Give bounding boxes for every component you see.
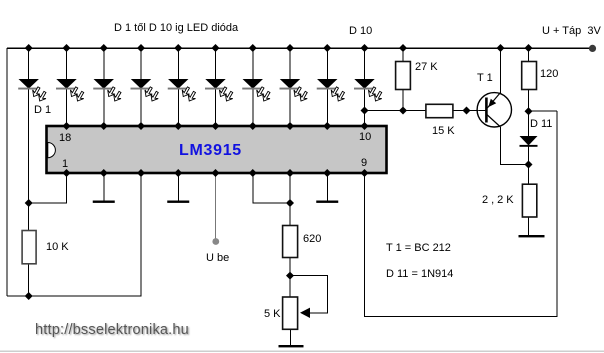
label 2,2K — [482, 194, 517, 206]
wire pin8 ground stub — [326, 174, 328, 201]
wire LED column D4 — [140, 48, 142, 125]
wire 620 to pot node — [289, 258, 291, 298]
label D11 — [530, 118, 552, 130]
LED D1 — [18, 79, 46, 101]
wire 27K top — [402, 48, 404, 62]
wire D10 tap to 27K node — [365, 110, 426, 112]
wire LED column D10 — [364, 48, 366, 125]
junction dots on top rail — [25, 44, 33, 52]
resistor R 15K — [426, 104, 453, 117]
wire 120 bottom to D11 — [528, 90, 530, 137]
wire LED column D3 — [103, 48, 105, 125]
bottom divider line — [0, 351, 604, 352]
wire pin6 jog to pin7 — [253, 174, 290, 203]
wire LED column D8 — [289, 48, 291, 125]
wire 10K bottom — [28, 264, 30, 296]
IC top pin dots — [63, 122, 71, 130]
ground pin4 — [167, 201, 189, 203]
junction dot 120/D11 — [525, 107, 533, 115]
resistor R 27K — [396, 62, 411, 90]
wire pin9 down and right bottom rail — [365, 111, 558, 317]
junction dot collector/2.2K — [525, 161, 533, 169]
label D10 — [349, 25, 372, 37]
label U be — [206, 252, 229, 264]
wire LED column D2 / pin 18 — [66, 48, 68, 125]
emitter with arrow — [487, 93, 500, 109]
resistor R 120 — [522, 62, 537, 90]
label D1 tol D10 — [114, 22, 238, 34]
IC U1 LM3915 body — [47, 126, 387, 173]
ground pin2 — [93, 201, 115, 203]
collector — [487, 115, 501, 128]
terminal U+Tap — [589, 45, 596, 52]
resistor R 10K — [22, 231, 36, 264]
ground 5K pot — [279, 345, 304, 347]
LED D2 — [56, 79, 84, 101]
wire LED column D6 — [215, 48, 217, 125]
LED D8 — [280, 79, 308, 101]
wire 120 top — [528, 48, 530, 62]
wire 2.2K bottom to ground — [528, 217, 530, 235]
label 620 — [303, 233, 321, 245]
wire left rail — [6, 48, 8, 296]
junction dot pin6/pin7 — [286, 199, 294, 207]
LED D10 — [354, 79, 382, 101]
label 120 — [540, 68, 558, 80]
wire emitter to rail — [500, 48, 502, 93]
label U + Tap 3V — [542, 25, 601, 37]
junction dot base — [463, 107, 471, 115]
pin label 1 — [62, 158, 68, 170]
potentiometer 5K body — [283, 297, 298, 329]
wire pot wiper loop — [290, 276, 328, 313]
wire pin1 to 10K node — [29, 174, 67, 203]
ground 2.2K — [519, 235, 545, 237]
wire LED column D1 — [28, 48, 30, 231]
terminal U be — [212, 238, 219, 245]
label D11 = 1N914 — [386, 268, 453, 280]
label URL — [35, 322, 189, 338]
wire D11 cathode to collector node — [528, 146, 530, 185]
junction dot 27K bottom — [399, 107, 407, 115]
IC bottom pin dots — [63, 169, 71, 177]
wire pin4 ground stub — [177, 174, 179, 201]
wire bottom-left to pin3 — [7, 174, 141, 296]
wire D11 node jog right — [529, 110, 558, 112]
label T1 = BC212 — [386, 242, 451, 254]
resistor R 2.2K — [522, 184, 536, 217]
potentiometer 5K wiper arrow — [300, 308, 310, 318]
label 15K — [432, 125, 455, 137]
transistor T1 — [477, 93, 511, 128]
junction dot 10K bottom — [25, 292, 33, 300]
resistor R 620 — [283, 226, 298, 258]
label 27K — [415, 61, 438, 73]
LED D7 — [242, 79, 270, 101]
LED D6 — [205, 79, 233, 101]
wire top supply rail — [7, 47, 592, 49]
wire collector down — [501, 127, 529, 165]
label D1 — [34, 104, 51, 116]
label T1 — [477, 72, 493, 84]
diode D11 — [520, 136, 538, 147]
wire pin5 input stub — [215, 174, 217, 239]
pin label 10 — [359, 131, 371, 143]
pin label 18 — [59, 132, 71, 144]
wire pot bottom to ground — [290, 329, 292, 345]
label 10K — [46, 241, 69, 253]
label 5K — [264, 308, 281, 320]
wire 15K to base — [453, 110, 478, 112]
junction dot pin1/10K — [25, 199, 33, 207]
junction dot 620/pot — [286, 272, 294, 280]
wire pin7 to 620 — [289, 174, 291, 226]
junction dot D10 tap — [361, 107, 369, 115]
wire LED column D9 — [326, 48, 328, 125]
LED D3 — [93, 79, 121, 101]
wire pin2 ground stub — [103, 174, 105, 201]
ground pin8 — [316, 201, 338, 203]
IC label LM3915 — [179, 142, 242, 160]
wire 27K bottom — [402, 90, 404, 111]
LED D5 — [168, 79, 196, 101]
LED D4 — [131, 79, 159, 101]
wire LED column D5 — [177, 48, 179, 125]
LED D9 — [317, 79, 345, 101]
wire LED column D7 — [252, 48, 254, 125]
pin label 9 — [361, 157, 367, 169]
